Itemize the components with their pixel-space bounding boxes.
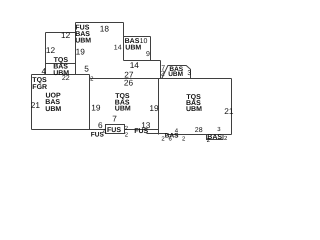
section A right (123, 23, 125, 61)
svg-text:UBM: UBM (125, 45, 141, 52)
svg-text:3: 3 (187, 70, 191, 77)
svg-text:BAS: BAS (45, 99, 60, 106)
svg-text:28: 28 (195, 127, 203, 134)
svg-text:FGR: FGR (32, 84, 47, 91)
svg-text:12: 12 (61, 30, 71, 40)
garage left (31, 75, 33, 130)
porch FUS box (106, 125, 125, 134)
svg-text:14: 14 (114, 44, 122, 51)
garage/strip top line (32, 74, 90, 76)
svg-text:UBM: UBM (186, 106, 202, 113)
svg-text:FUS: FUS (91, 131, 105, 138)
right section bottom (167, 134, 232, 136)
svg-text:9: 9 (146, 51, 150, 58)
svg-text:22: 22 (62, 75, 70, 82)
box1 top (46, 32, 76, 34)
svg-text:19: 19 (91, 103, 101, 113)
bottom jog (147, 133, 168, 135)
svg-text:FUS: FUS (134, 128, 148, 135)
section A left (75, 23, 77, 75)
svg-text:UBM: UBM (115, 106, 131, 113)
svg-text:FUS: FUS (107, 127, 121, 134)
section B top (124, 36, 151, 38)
svg-text:26: 26 (124, 78, 134, 88)
svg-text:UBM: UBM (168, 71, 183, 78)
svg-text:21: 21 (224, 106, 234, 116)
section A top (76, 22, 124, 24)
partition center/right (158, 79, 160, 135)
svg-text:19: 19 (149, 103, 159, 113)
svg-text:7: 7 (112, 114, 117, 124)
svg-text:19: 19 (76, 47, 86, 57)
bay window (162, 66, 191, 79)
main top edge (90, 78, 232, 80)
section B bottom + step (124, 60, 161, 62)
svg-text:14: 14 (130, 60, 140, 70)
svg-text:UBM: UBM (45, 106, 61, 113)
main right edge (231, 79, 233, 135)
step down to main (160, 61, 162, 79)
box1 left (45, 33, 47, 75)
svg-text:18: 18 (100, 23, 110, 33)
svg-text:2: 2 (161, 71, 165, 78)
svg-text:21: 21 (31, 100, 41, 110)
svg-text:UBM: UBM (75, 37, 91, 44)
svg-text:12: 12 (46, 45, 56, 55)
garage bottom (32, 129, 90, 131)
center bottom east (125, 129, 159, 131)
section B right (150, 37, 152, 61)
svg-text:4: 4 (42, 66, 47, 76)
center bottom west (90, 129, 106, 131)
svg-text:5: 5 (84, 64, 89, 74)
box1 bottom (46, 63, 76, 65)
west edge (89, 75, 91, 130)
BAS box bottom right (207, 135, 224, 140)
